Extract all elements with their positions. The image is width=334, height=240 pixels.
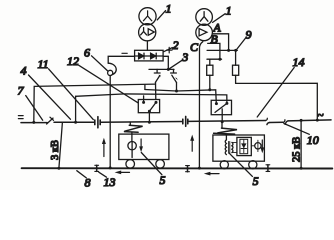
traction motor M1 [128,142,136,158]
pantograph (right loco) [214,122,237,134]
label 6 [84,46,108,72]
C phase return line to rail [199,42,202,168]
svg-text:12: 12 [67,54,79,68]
label 2 [164,38,179,52]
svg-text:10: 10 [307,133,319,147]
label 5 (right loco) [229,153,258,188]
label 10 [284,124,319,148]
down arrow in right loco [260,140,264,153]
DC symbol = [18,116,23,119]
wire switch 3a down to sectioning switch box [155,82,157,99]
svg-text:9: 9 [246,28,252,42]
up arrow (return current, left) [102,138,106,157]
rail line [22,167,333,169]
sectioning switch box (left) [138,96,159,124]
catenary right of middle insulator [189,120,266,123]
breaker 9a [207,59,213,91]
label 1 (left transformer) [157,2,171,20]
phase B wire [208,43,220,59]
loco transformer winding [225,134,233,154]
wire switch 3b down to feeder line [176,83,178,92]
rectifier U1 [135,50,164,61]
svg-text:1: 1 [226,4,232,18]
catenary continues to insulator 1 [54,121,95,123]
svg-text:14: 14 [293,55,305,69]
down arrow in left loco [139,139,143,152]
bus H2 [207,58,222,60]
svg-text:7: 7 [18,84,25,98]
air gap B on catenary (10) [283,120,285,123]
section insulator (middle) [183,116,188,126]
locomotive 5 (right, AC) [213,135,265,169]
transformer T2 (right substation) [196,9,213,41]
middle feeder line to right switch box [145,85,216,104]
25kV voltage line [300,119,303,170]
air gap A on catenary [266,118,268,120]
bus H1 [207,49,237,51]
disconnector 7 on catenary [47,117,54,124]
svg-text:13: 13 [104,175,116,189]
label 7 [18,84,43,121]
breaker 9b [233,50,239,83]
negative feeder wire with hook [108,56,135,75]
node: plus on bus [167,68,170,71]
label 14 [257,55,304,117]
plus sign [167,47,173,53]
svg-text:8: 8 [85,176,91,190]
catenary wire left section [21,122,47,124]
svg-text:3 кВ: 3 кВ [50,140,61,160]
traction motor M2 [251,140,261,151]
pantograph (left loco) [125,122,143,132]
svg-text:3: 3 [181,50,188,64]
label 12 [67,54,138,103]
switch box (right) [211,100,231,123]
insulated rail joint (middle) [186,166,190,172]
svg-text:1: 1 [166,2,172,16]
catenary middle section [101,121,182,124]
label 4 [21,64,71,120]
wire T1 to rectifier [146,41,148,50]
catenary 25kV section [288,120,331,121]
label 11 [38,57,94,120]
25kV feeder to catenary [236,83,318,120]
locomotive 5 (left, DC) [119,134,169,168]
feeder switch 3b (right) [171,69,178,82]
svg-text:11: 11 [38,57,49,71]
feeder switch 3a (left) [154,69,161,82]
bus B line (sectioning bus) [74,94,227,124]
label 13 [99,172,116,189]
label 3 [170,50,189,69]
up arrow (return current, right) [190,135,194,152]
minus sign [122,52,127,54]
svg-text:25 кВ: 25 кВ [292,137,303,162]
switch bus [149,68,174,70]
rail current arrow (right) [204,172,219,176]
svg-text:5: 5 [253,174,259,188]
neutral insert wire [270,121,284,123]
svg-text:4: 4 [21,64,27,78]
phase A wire [212,34,228,51]
section insulator (left, 11) [95,117,100,128]
rail current arrow (left) [115,171,130,175]
svg-text:6: 6 [84,46,90,60]
insulated rail joint 13 (left) [95,165,99,171]
insulated rail joint (right) [266,165,270,172]
svg-text:2: 2 [173,38,179,52]
positive feeder to switch bus [163,56,168,69]
loco wire to motor [131,132,133,141]
3kV voltage line [57,122,62,169]
return feeder line to rail [109,76,111,168]
feeder line 4 (bus A to left catenary end) [34,84,156,122]
junction dot return feeder on rail [109,166,112,169]
svg-text:~: ~ [318,110,324,122]
svg-text:5: 5 [160,173,166,187]
label 5 (left loco) [141,153,165,187]
label 1 (right transformer) [213,4,232,23]
rectifier box in right loco [232,137,251,155]
label 9 [237,28,252,50]
svg-text:C: C [190,40,199,54]
label 8 [77,171,91,190]
transformer T1 (left substation) [139,8,157,41]
